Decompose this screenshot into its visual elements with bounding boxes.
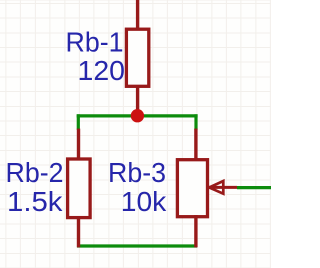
svg-text:Rb-1: Rb-1 — [66, 26, 124, 57]
Rb-3 wiper arrowhead — [209, 181, 223, 194]
Rb-1 pin 2 (bottom, to junction) — [136, 85, 139, 116]
Rb-3 wiper pin 2 arm (dark red) — [209, 186, 238, 189]
Rb-3 body — [177, 160, 207, 217]
Rb-1 body — [126, 29, 148, 86]
svg-text:120: 120 — [78, 55, 126, 86]
wire top net: left vertical segment — [77, 114, 80, 129]
svg-text:Rb-2: Rb-2 — [6, 157, 64, 188]
svg-text:10k: 10k — [121, 186, 167, 217]
Rb-2 pin 1 (top) — [77, 129, 80, 160]
potentiometer Rb-3 — [177, 129, 237, 248]
resistor Rb-1 — [126, 0, 148, 116]
resistor Rb-2 — [68, 129, 91, 248]
Rb-2 body — [68, 159, 91, 218]
wire top net: horizontal segment — [77, 114, 198, 117]
junction dot — [131, 109, 144, 122]
wire wiper output (green, to right edge) — [237, 186, 271, 189]
wire bottom net: horizontal segment (Rb-2 bottom to Rb-3 bottom) — [77, 244, 197, 247]
svg-text:1.5k: 1.5k — [7, 186, 64, 217]
Rb-3 pin 3 (bottom) — [194, 215, 197, 247]
Rb-3 pin 1 (top) — [194, 129, 197, 161]
Rb-1 pin 1 (top, to image edge) — [136, 0, 139, 30]
svg-text:Rb-3: Rb-3 — [108, 157, 166, 188]
wire top net: right vertical segment — [194, 114, 197, 129]
Rb-2 pin 2 (bottom) — [77, 216, 80, 247]
